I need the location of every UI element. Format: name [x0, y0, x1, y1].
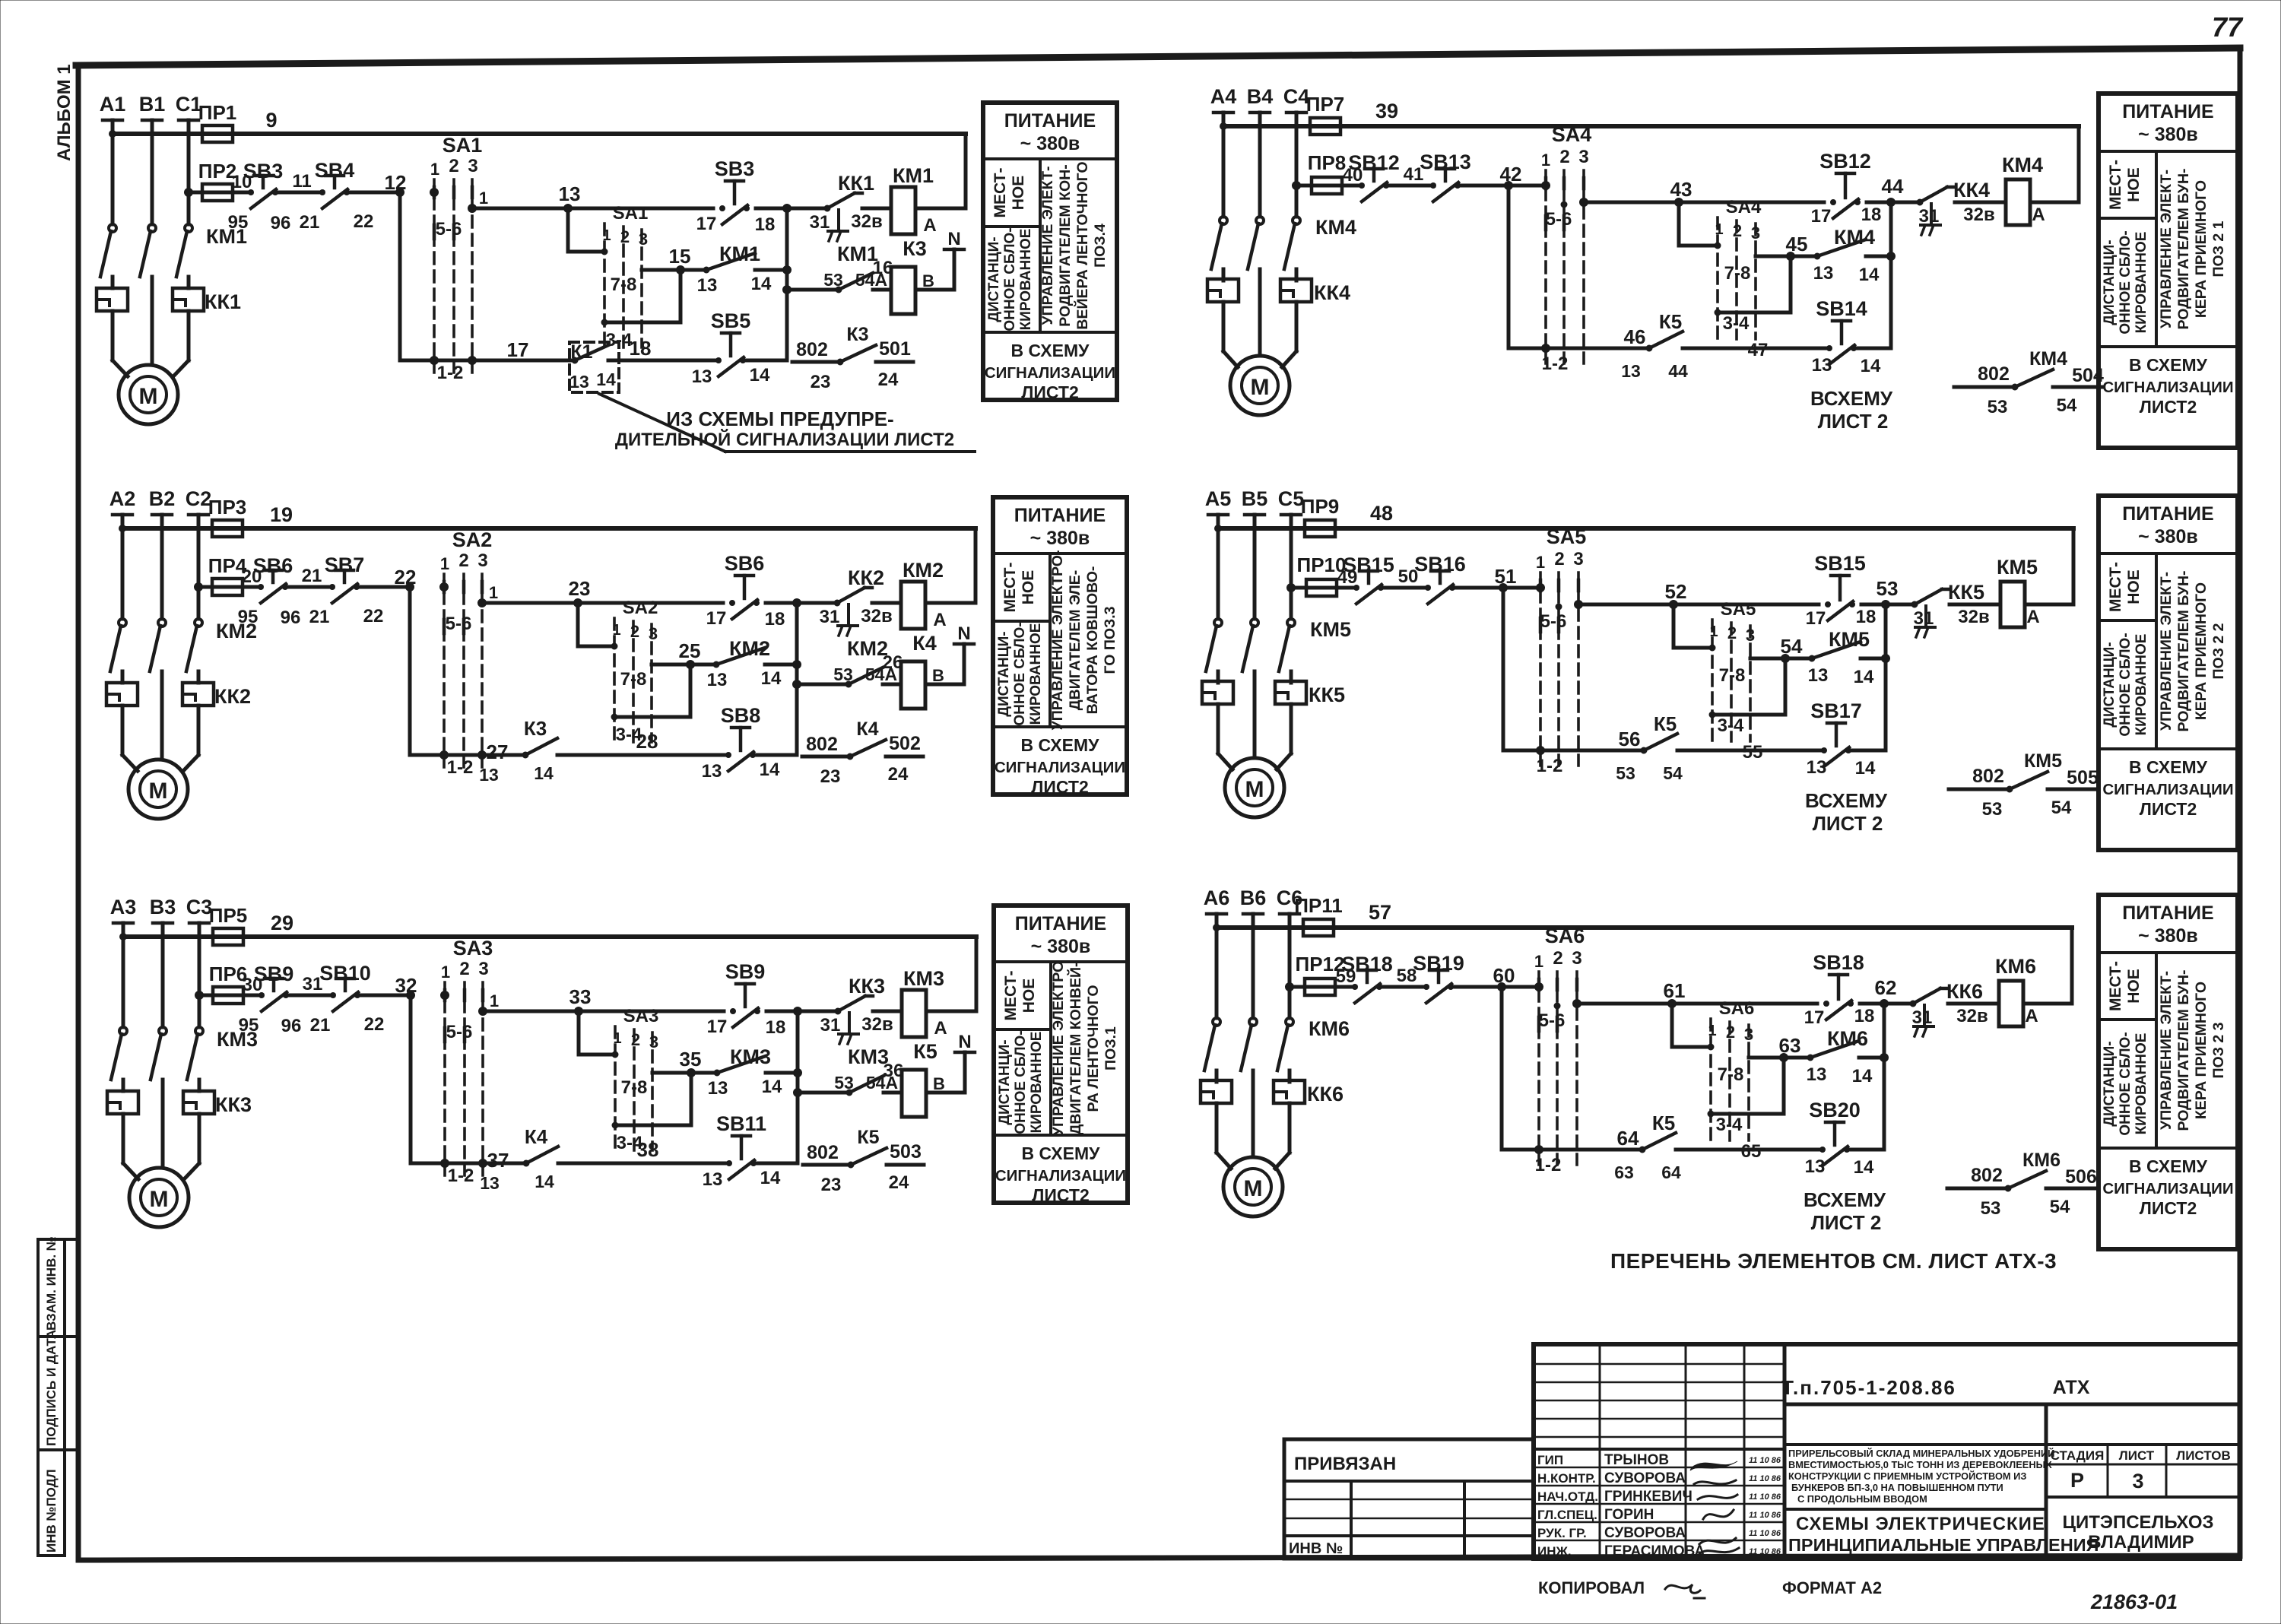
- svg-text:13: 13: [1621, 361, 1641, 381]
- terminal numbers SB9: [239, 975, 302, 1036]
- svg-text:ВСХЕМУ: ВСХЕМУ: [1805, 789, 1888, 812]
- signal contact КМ5 to sheet 2: [1949, 750, 2099, 820]
- relay contact К5: [1616, 712, 1823, 783]
- thermal relay КК5 heaters: [1202, 671, 1345, 756]
- svg-text:1-2: 1-2: [1535, 1155, 1562, 1175]
- svg-text:32в: 32в: [861, 1014, 893, 1035]
- push-button SB13: [1420, 151, 1471, 201]
- svg-text:23: 23: [811, 372, 831, 392]
- phase terminal А2: [109, 487, 136, 619]
- svg-text:ДИСТАНЦИ-: ДИСТАНЦИ-: [997, 1039, 1013, 1124]
- wire coil to loop: [2030, 201, 2079, 205]
- svg-text:ЛИСТ2: ЛИСТ2: [1032, 1185, 1090, 1205]
- wire to coil: [872, 601, 901, 605]
- svg-text:20: 20: [242, 566, 262, 587]
- wire (row C to column): [1848, 1148, 1884, 1152]
- svg-text:3: 3: [639, 230, 648, 249]
- svg-text:SB5: SB5: [711, 309, 751, 332]
- svg-text:11: 11: [292, 171, 311, 192]
- info box: Питание ~380В: [993, 497, 1127, 795]
- svg-text:54: 54: [2050, 1197, 2070, 1217]
- svg-text:ПОЗ 2 1: ПОЗ 2 1: [2210, 220, 2227, 277]
- signal contact КМ6 to sheet 2: [1947, 1150, 2097, 1219]
- terminal numbers 17 18: [1811, 205, 1882, 227]
- node 42: [1500, 163, 1522, 190]
- svg-text:А: А: [2025, 1006, 2038, 1026]
- wire (link row A to SA aux): [579, 1011, 615, 1055]
- selector switch SA4: [1541, 123, 1591, 374]
- svg-text:40: 40: [1343, 165, 1363, 186]
- svg-text:АТХ: АТХ: [2053, 1377, 2090, 1398]
- svg-text:К5: К5: [857, 1127, 879, 1148]
- note: copied by: [1538, 1578, 1705, 1598]
- svg-text:17: 17: [507, 338, 529, 361]
- fuse ПР1: [198, 101, 237, 142]
- wire (row C to column): [1849, 749, 1886, 753]
- contactor coil КМ4: [2002, 154, 2045, 225]
- svg-text:ПР3: ПР3: [208, 496, 247, 519]
- svg-text:24: 24: [878, 370, 899, 390]
- svg-text:14: 14: [1861, 356, 1881, 376]
- svg-text:ГЕРАСИМОВА: ГЕРАСИМОВА: [1604, 1543, 1705, 1559]
- terminal numbers 13 14: [1805, 1156, 1874, 1178]
- info box: Питание ~380В: [2099, 496, 2238, 850]
- svg-text:18: 18: [1856, 607, 1877, 627]
- svg-text:33: 33: [569, 985, 592, 1008]
- svg-text:М: М: [139, 384, 158, 409]
- svg-text:SB6: SB6: [725, 552, 765, 575]
- title block: document number: [1781, 1376, 2090, 1399]
- neutral N terminal: [944, 229, 964, 249]
- wire (loop right side): [2070, 928, 2074, 1004]
- svg-text:31: 31: [1912, 1007, 1933, 1028]
- fuse ПР12: [1296, 953, 1345, 995]
- svg-text:В СХЕМУ: В СХЕМУ: [1011, 341, 1090, 360]
- svg-text:А3: А3: [110, 896, 137, 918]
- svg-text:НАЧ.ОТД.: НАЧ.ОТД.: [1537, 1489, 1598, 1504]
- svg-text:К4: К4: [912, 632, 937, 655]
- svg-text:СУВОРОВА: СУВОРОВА: [1604, 1470, 1686, 1486]
- selector switch SA5 contacts 7-8 3-4: [1709, 599, 1762, 763]
- svg-text:ПРИНЦИПИАЛЬНЫЕ УПРАВЛЕНИЯ: ПРИНЦИПИАЛЬНЫЕ УПРАВЛЕНИЯ: [1788, 1535, 2099, 1555]
- svg-text:32в: 32в: [1963, 205, 1994, 225]
- svg-text:НОЕ: НОЕ: [2125, 167, 2143, 202]
- svg-text:11 10 86: 11 10 86: [1749, 1547, 1781, 1556]
- push-button SB4: [315, 159, 355, 208]
- relay coil К4: [883, 632, 944, 709]
- svg-text:SA5: SA5: [1547, 525, 1587, 548]
- svg-text:SB17: SB17: [1810, 699, 1862, 722]
- svg-text:3: 3: [649, 1032, 658, 1051]
- svg-text:53: 53: [1616, 763, 1635, 783]
- relay contact К5: [1614, 1112, 1822, 1182]
- terminal numbers 13 14: [703, 1168, 781, 1190]
- contactor main contacts КМ3: [111, 1027, 258, 1091]
- svg-text:SA6: SA6: [1545, 925, 1585, 947]
- svg-text:КМ2: КМ2: [903, 559, 944, 582]
- svg-text:КМ4: КМ4: [1315, 216, 1356, 239]
- svg-text:32в: 32в: [1958, 607, 1989, 627]
- svg-text:18: 18: [1854, 1006, 1875, 1026]
- svg-text:КК3: КК3: [215, 1093, 252, 1116]
- svg-text:КМ3: КМ3: [903, 967, 944, 990]
- svg-text:3: 3: [1578, 147, 1588, 167]
- svg-text:17: 17: [1811, 206, 1832, 227]
- svg-text:ЛИСТОВ: ЛИСТОВ: [2176, 1448, 2230, 1463]
- svg-text:РОДВИГАТЕЛЕМ БУН-: РОДВИГАТЕЛЕМ БУН-: [2175, 570, 2192, 731]
- svg-text:В СХЕМУ: В СХЕМУ: [1022, 1143, 1101, 1163]
- svg-text:КИРОВАННОЕ: КИРОВАННОЕ: [2133, 232, 2149, 334]
- fuse ПР6: [209, 963, 248, 1004]
- wire (link aux to SA 3-4): [1711, 1058, 1784, 1114]
- svg-text:SA3: SA3: [623, 1006, 659, 1026]
- wire to coil: [1955, 201, 2006, 205]
- svg-text:К5: К5: [1659, 310, 1682, 333]
- terminal numbers 17 18: [1806, 607, 1877, 629]
- svg-text:ПР1: ПР1: [198, 101, 237, 124]
- svg-text:В2: В2: [149, 487, 176, 510]
- svg-text:50: 50: [1398, 566, 1419, 587]
- svg-text:БУНКЕРОВ БП-3,0 НА ПОВЫШЕННОМ: БУНКЕРОВ БП-3,0 НА ПОВЫШЕННОМ ПУТИ: [1791, 1482, 2003, 1493]
- wire (drop to SA bottom): [1503, 588, 1540, 750]
- signal contact КМ4 to sheet 2: [1954, 348, 2104, 417]
- selector switch SA5: [1536, 525, 1586, 776]
- svg-text:ОННОЕ СБЛО-: ОННОЕ СБЛО-: [2118, 1032, 2133, 1135]
- svg-text:ЛИСТ2: ЛИСТ2: [1021, 382, 1079, 402]
- wire (row C to column): [754, 1162, 798, 1166]
- wire (junction column): [1883, 1004, 1886, 1150]
- svg-text:СИГНАЛИЗАЦИИ: СИГНАЛИЗАЦИИ: [2102, 781, 2233, 798]
- svg-text:В СХЕМУ: В СХЕМУ: [1021, 735, 1100, 755]
- info box: function label: [1049, 550, 1118, 731]
- svg-text:КМ4: КМ4: [2002, 154, 2043, 176]
- phase terminal А3: [110, 896, 137, 1027]
- svg-text:ЛИСТ 2: ЛИСТ 2: [1813, 812, 1883, 835]
- svg-text:ПИТАНИЕ: ПИТАНИЕ: [1004, 110, 1096, 132]
- svg-text:1-2: 1-2: [1542, 354, 1569, 374]
- info box: Питание ~380В: [983, 103, 1117, 400]
- svg-text:ВСХЕМУ: ВСХЕМУ: [1804, 1188, 1886, 1211]
- title block: signatures: [1690, 1461, 1739, 1554]
- svg-text:14: 14: [534, 763, 554, 783]
- wire (junction column): [795, 603, 799, 755]
- selector switch SA1 contacts 7-8 3-4: [601, 203, 648, 350]
- signal contact К5 to sheet 2: [803, 1127, 924, 1195]
- info box: to signalling circuit sheet 2: [2102, 355, 2233, 417]
- svg-text:ПОДПИСЬ И ДАТА: ПОДПИСЬ И ДАТА: [44, 1330, 59, 1446]
- svg-text:13: 13: [703, 1169, 723, 1190]
- info box: mode labels: [986, 168, 1034, 331]
- svg-text:К5: К5: [1652, 1112, 1675, 1134]
- terminal numbers 13 14: [1807, 757, 1876, 779]
- svg-text:SB15: SB15: [1814, 552, 1866, 575]
- wire (row C): [1540, 728, 1644, 750]
- node 12: [385, 171, 407, 197]
- svg-text:1: 1: [440, 554, 449, 573]
- svg-text:1: 1: [1541, 151, 1550, 170]
- svg-text:А2: А2: [109, 487, 136, 510]
- svg-text:ФОРМАТ А2: ФОРМАТ А2: [1782, 1578, 1882, 1597]
- svg-text:С ПРОДОЛЬНЫМ ВВОДОМ: С ПРОДОЛЬНЫМ ВВОДОМ: [1797, 1493, 1927, 1505]
- svg-text:К5: К5: [913, 1040, 937, 1063]
- svg-text:13: 13: [1812, 355, 1832, 376]
- svg-text:ГОРИН: ГОРИН: [1604, 1507, 1654, 1523]
- wire feed from phase C: [1286, 983, 1540, 991]
- svg-text:1: 1: [1715, 221, 1723, 238]
- svg-text:КК5: КК5: [1948, 581, 1984, 604]
- svg-text:КК2: КК2: [848, 566, 884, 589]
- svg-text:2: 2: [1553, 948, 1562, 969]
- wire coil to loop: [2023, 1002, 2072, 1006]
- svg-text:3: 3: [2132, 1470, 2143, 1492]
- node 22: [395, 566, 417, 592]
- svg-text:13: 13: [1808, 665, 1829, 686]
- push-button SB7: [325, 553, 365, 603]
- svg-text:СИГНАЛИЗАЦИИ: СИГНАЛИЗАЦИИ: [995, 759, 1125, 776]
- svg-text:21: 21: [310, 1015, 331, 1036]
- svg-text:ЛИСТ 2: ЛИСТ 2: [1811, 1211, 1882, 1234]
- svg-text:КК3: КК3: [849, 975, 885, 998]
- note: to circuit sheet 2: [1810, 387, 1893, 433]
- svg-text:SB11: SB11: [716, 1112, 766, 1135]
- terminal numbers 13 14: [1812, 355, 1881, 376]
- svg-text:ВЛАДИМИР: ВЛАДИМИР: [2088, 1532, 2194, 1553]
- svg-text:СУВОРОВА: СУВОРОВА: [1604, 1525, 1686, 1541]
- wire coil to loop: [925, 601, 976, 605]
- svg-text:ЦИТЭПСЕЛЬХОЗ: ЦИТЭПСЕЛЬХОЗ: [2062, 1512, 2213, 1533]
- contactor main contacts КМ4: [1211, 216, 1356, 281]
- push-button SB18: [1813, 951, 1864, 1020]
- svg-text:14: 14: [761, 668, 782, 689]
- svg-text:SA4: SA4: [1552, 123, 1592, 146]
- push-button SB16: [1414, 553, 1466, 604]
- wire row 16: [783, 286, 839, 294]
- svg-text:1: 1: [430, 160, 439, 179]
- wire 39 (bus 380V): [1220, 100, 2080, 130]
- svg-text:А: А: [923, 215, 936, 236]
- thermal break contact КК1: [824, 172, 874, 241]
- wire feed from phase C: [1287, 584, 1541, 592]
- svg-text:22: 22: [363, 606, 384, 626]
- node 51: [1495, 565, 1517, 592]
- motor M6: [1217, 1153, 1290, 1216]
- wire coil to N: [915, 249, 954, 290]
- fuse ПР2: [198, 160, 237, 201]
- svg-text:SA6: SA6: [1719, 998, 1755, 1019]
- privyazan table: [1284, 1439, 1534, 1559]
- wire (loop right side): [975, 937, 979, 1011]
- selector switch SA4 contacts 7-8 3-4: [1715, 197, 1768, 360]
- contactor main contacts КМ1: [100, 224, 247, 288]
- motor M3: [123, 1163, 199, 1227]
- auxiliary contact КМ4 (self-hold): [1756, 226, 1896, 285]
- terminal numbers 17 18: [706, 608, 785, 630]
- svg-text:~ 380в: ~ 380в: [1031, 936, 1091, 957]
- wire (drop to SA bottom): [1502, 987, 1539, 1150]
- svg-text:ПР9: ПР9: [1301, 495, 1340, 518]
- wire 43 (row A): [1580, 178, 1825, 207]
- svg-text:ВЗАМ. ИНВ. №: ВЗАМ. ИНВ. №: [44, 1236, 59, 1331]
- svg-text:54: 54: [2051, 798, 2072, 818]
- terminal numbers 13 14: [692, 365, 770, 387]
- contactor main contacts КМ5: [1206, 618, 1351, 683]
- svg-text:ПР8: ПР8: [1308, 151, 1347, 174]
- svg-text:РОДВИГАТЕЛЕМ БУН-: РОДВИГАТЕЛЕМ БУН-: [2175, 969, 2192, 1131]
- svg-text:21: 21: [302, 566, 322, 586]
- svg-text:ДВИГАТЕЛЕМ ЭЛЕ-: ДВИГАТЕЛЕМ ЭЛЕ-: [1067, 570, 1083, 711]
- svg-text:КК6: КК6: [1307, 1083, 1344, 1105]
- svg-text:ПИТАНИЕ: ПИТАНИЕ: [2122, 101, 2213, 122]
- svg-text:13: 13: [692, 366, 712, 387]
- svg-text:5-6: 5-6: [1546, 209, 1572, 230]
- svg-text:14: 14: [535, 1172, 554, 1191]
- relay contact К4: [480, 1125, 728, 1193]
- fuse ПР4: [208, 554, 247, 595]
- contactor coil КМ6: [1995, 955, 2038, 1026]
- svg-text:ПИТАНИЕ: ПИТАНИЕ: [1015, 913, 1106, 934]
- svg-text:18: 18: [1861, 205, 1882, 225]
- wire (drop to SA bottom): [400, 192, 434, 360]
- svg-text:17: 17: [1806, 608, 1826, 629]
- terminal numbers 17 18: [707, 1017, 786, 1038]
- svg-text:SB14: SB14: [1816, 297, 1867, 320]
- svg-text:32в: 32в: [1956, 1006, 1988, 1026]
- svg-text:32в: 32в: [861, 606, 892, 626]
- svg-text:К4: К4: [525, 1125, 548, 1148]
- svg-text:32в: 32в: [851, 211, 882, 232]
- push-button SB20: [1809, 1099, 1861, 1166]
- fuse ПР9: [1301, 495, 1340, 537]
- svg-text:14: 14: [1854, 1157, 1874, 1178]
- selector switch SA3: [441, 937, 493, 1186]
- svg-text:57: 57: [1369, 901, 1391, 924]
- svg-text:3-4: 3-4: [1723, 313, 1750, 334]
- push-button SB6: [253, 554, 293, 603]
- svg-text:Р: Р: [2070, 1469, 2084, 1492]
- svg-text:ЛИСТ2: ЛИСТ2: [2140, 799, 2197, 819]
- svg-text:В5: В5: [1242, 487, 1268, 510]
- svg-text:ДИСТАНЦИ-: ДИСТАНЦИ-: [2102, 642, 2118, 727]
- svg-text:27: 27: [487, 741, 509, 763]
- wire (link row A to SA aux): [568, 208, 604, 252]
- svg-text:7-8: 7-8: [1719, 665, 1746, 686]
- svg-text:УПРАВЛЕНИЕ ЭЛЕКТРО: УПРАВЛЕНИЕ ЭЛЕКТРО: [1050, 961, 1067, 1136]
- svg-text:ОННОЕ СБЛО-: ОННОЕ СБЛО-: [2118, 633, 2133, 736]
- auxiliary contact КМ1 53-54: [823, 243, 893, 293]
- svg-text:МЕСТ-: МЕСТ-: [2107, 160, 2124, 210]
- thermal break contact КК3: [835, 975, 885, 1044]
- svg-text:УПРАВЛЕНИЕ ЭЛЕКТ-: УПРАВЛЕНИЕ ЭЛЕКТ-: [2158, 971, 2175, 1130]
- svg-text:3: 3: [477, 550, 487, 571]
- svg-text:14: 14: [1859, 265, 1880, 285]
- svg-text:1-2: 1-2: [1537, 756, 1563, 776]
- wire (drop to SA bottom): [411, 995, 445, 1163]
- svg-text:21: 21: [309, 607, 330, 627]
- svg-text:КИРОВАННОЕ: КИРОВАННОЕ: [1029, 1032, 1045, 1134]
- svg-text:КМ2: КМ2: [216, 620, 257, 642]
- svg-text:1: 1: [479, 189, 488, 208]
- svg-text:SA3: SA3: [453, 937, 493, 959]
- terminal numbers SB4: [292, 171, 373, 233]
- thermal break contact КК4: [1917, 179, 1990, 235]
- selector switch SA6 contacts 7-8 3-4: [1708, 998, 1761, 1162]
- svg-text:802: 802: [1971, 1165, 2003, 1186]
- wire feed from phase C: [185, 189, 401, 197]
- svg-text:КМ6: КМ6: [1309, 1017, 1350, 1040]
- wire (loop right side): [974, 528, 978, 603]
- wire 52 (row A): [1575, 580, 1819, 609]
- wire (link row A to SA aux): [1672, 1004, 1711, 1047]
- svg-text:11 10 86: 11 10 86: [1749, 1456, 1781, 1465]
- svg-text:КК2: КК2: [214, 685, 251, 708]
- wire coil to loop: [2025, 603, 2073, 607]
- svg-text:КИРОВАННОЕ: КИРОВАННОЕ: [1018, 229, 1034, 331]
- terminal numbers 13 14: [702, 760, 780, 782]
- svg-text:23: 23: [569, 577, 591, 600]
- svg-text:24: 24: [889, 1172, 909, 1193]
- svg-text:11 10 86: 11 10 86: [1749, 1529, 1781, 1538]
- wire (drop to SA bottom): [410, 587, 444, 755]
- wire (link aux to SA 3-4): [614, 665, 690, 717]
- svg-text:19: 19: [270, 503, 293, 526]
- info box: mode labels: [2102, 160, 2149, 335]
- svg-text:КМ5: КМ5: [1997, 556, 2038, 579]
- info box: to signalling circuit sheet 2: [2102, 1156, 2233, 1218]
- contactor main contacts КМ6: [1204, 1017, 1350, 1082]
- svg-text:2: 2: [449, 156, 458, 176]
- wire (row C): [445, 1149, 526, 1172]
- wire (row C): [1539, 1127, 1642, 1150]
- svg-text:53: 53: [1981, 1198, 2001, 1219]
- svg-text:ИНВ №ПОДЛ: ИНВ №ПОДЛ: [44, 1469, 59, 1553]
- svg-text:КЕРА ПРИЕМНОГО: КЕРА ПРИЕМНОГО: [2193, 582, 2210, 720]
- svg-text:~ 380в: ~ 380в: [2138, 925, 2198, 947]
- wire (row C to column): [753, 753, 797, 757]
- frame top border: [76, 48, 2240, 65]
- svg-text:1-2: 1-2: [437, 363, 464, 383]
- svg-text:КМ5: КМ5: [2024, 750, 2062, 772]
- fuse ПР5: [209, 904, 248, 945]
- wire 57 (bus 380V): [1213, 901, 2073, 931]
- svg-text:SB19: SB19: [1413, 952, 1464, 975]
- motor M5: [1218, 753, 1291, 817]
- svg-text:НОЕ: НОЕ: [1010, 176, 1027, 211]
- svg-text:КМ4: КМ4: [2029, 348, 2067, 370]
- svg-text:КМ1: КМ1: [893, 164, 934, 187]
- svg-text:54: 54: [1663, 763, 1683, 783]
- svg-text:В4: В4: [1247, 85, 1274, 108]
- wire (row C): [1546, 325, 1649, 348]
- svg-text:СИГНАЛИЗАЦИИ: СИГНАЛИЗАЦИИ: [2102, 379, 2233, 396]
- svg-text:39: 39: [1375, 100, 1398, 122]
- svg-text:М: М: [150, 1187, 169, 1212]
- svg-text:63: 63: [1614, 1162, 1634, 1182]
- info box: mode labels: [2102, 961, 2149, 1136]
- terminal numbers 31 32: [1914, 607, 1990, 629]
- svg-text:14: 14: [1852, 1066, 1873, 1086]
- svg-text:22: 22: [354, 211, 374, 232]
- svg-text:5-6: 5-6: [436, 219, 462, 239]
- wire row 26: [793, 680, 849, 689]
- phase terminal А6: [1204, 887, 1230, 1018]
- wire coil to N: [926, 1052, 965, 1093]
- svg-text:17: 17: [707, 1017, 728, 1037]
- push-button SB3: [715, 157, 755, 224]
- svg-text:2: 2: [1554, 549, 1564, 569]
- svg-text:КК1: КК1: [838, 172, 874, 195]
- svg-text:В СХЕМУ: В СХЕМУ: [2129, 757, 2208, 777]
- svg-text:~ 380в: ~ 380в: [2138, 124, 2198, 145]
